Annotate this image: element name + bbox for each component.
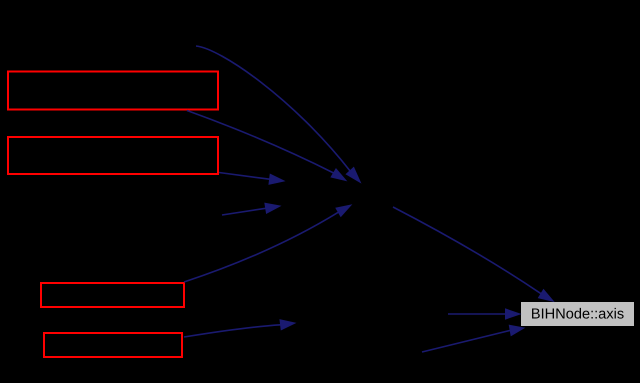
wire E5 (curved edge from node C to center node) — [184, 212, 338, 282]
arrowhead E6 — [280, 320, 295, 330]
arrowhead E1 — [346, 168, 360, 183]
wire E1 (long arc from top to center node) — [196, 46, 350, 171]
node A (red truncated node, top-left large box) — [8, 72, 218, 110]
node C (red truncated node, lower small box) — [41, 283, 184, 307]
wire E2 (edge from node A to center node) — [187, 111, 334, 174]
arrowhead E4 — [265, 203, 280, 213]
wire E4 (short middle arrow) — [222, 208, 266, 215]
node D (red truncated node, bottom small box) — [44, 333, 182, 357]
arrowhead E2 — [331, 169, 346, 181]
wire E6 (edge from node D) — [184, 325, 281, 337]
wire E8 (horizontal arrow into BIHNode::axis) — [448, 313, 506, 315]
arrowhead E8 — [506, 309, 521, 319]
wire E3 (edge from node B, short arrow) — [219, 173, 270, 180]
arrowhead E7 — [539, 290, 554, 302]
wire E9 (diagonal arrow into BIHNode::axis bottom) — [422, 330, 510, 352]
arrowhead E3 — [269, 174, 284, 184]
node BIHNode::axis (gray filled node) — [521, 302, 634, 326]
node B (red truncated node, second large box) — [8, 137, 218, 174]
arrowhead E9 — [509, 325, 524, 335]
wire E7 (edge from center node to BIHNode::axis) — [393, 207, 541, 294]
arrowhead E5 — [336, 205, 351, 216]
